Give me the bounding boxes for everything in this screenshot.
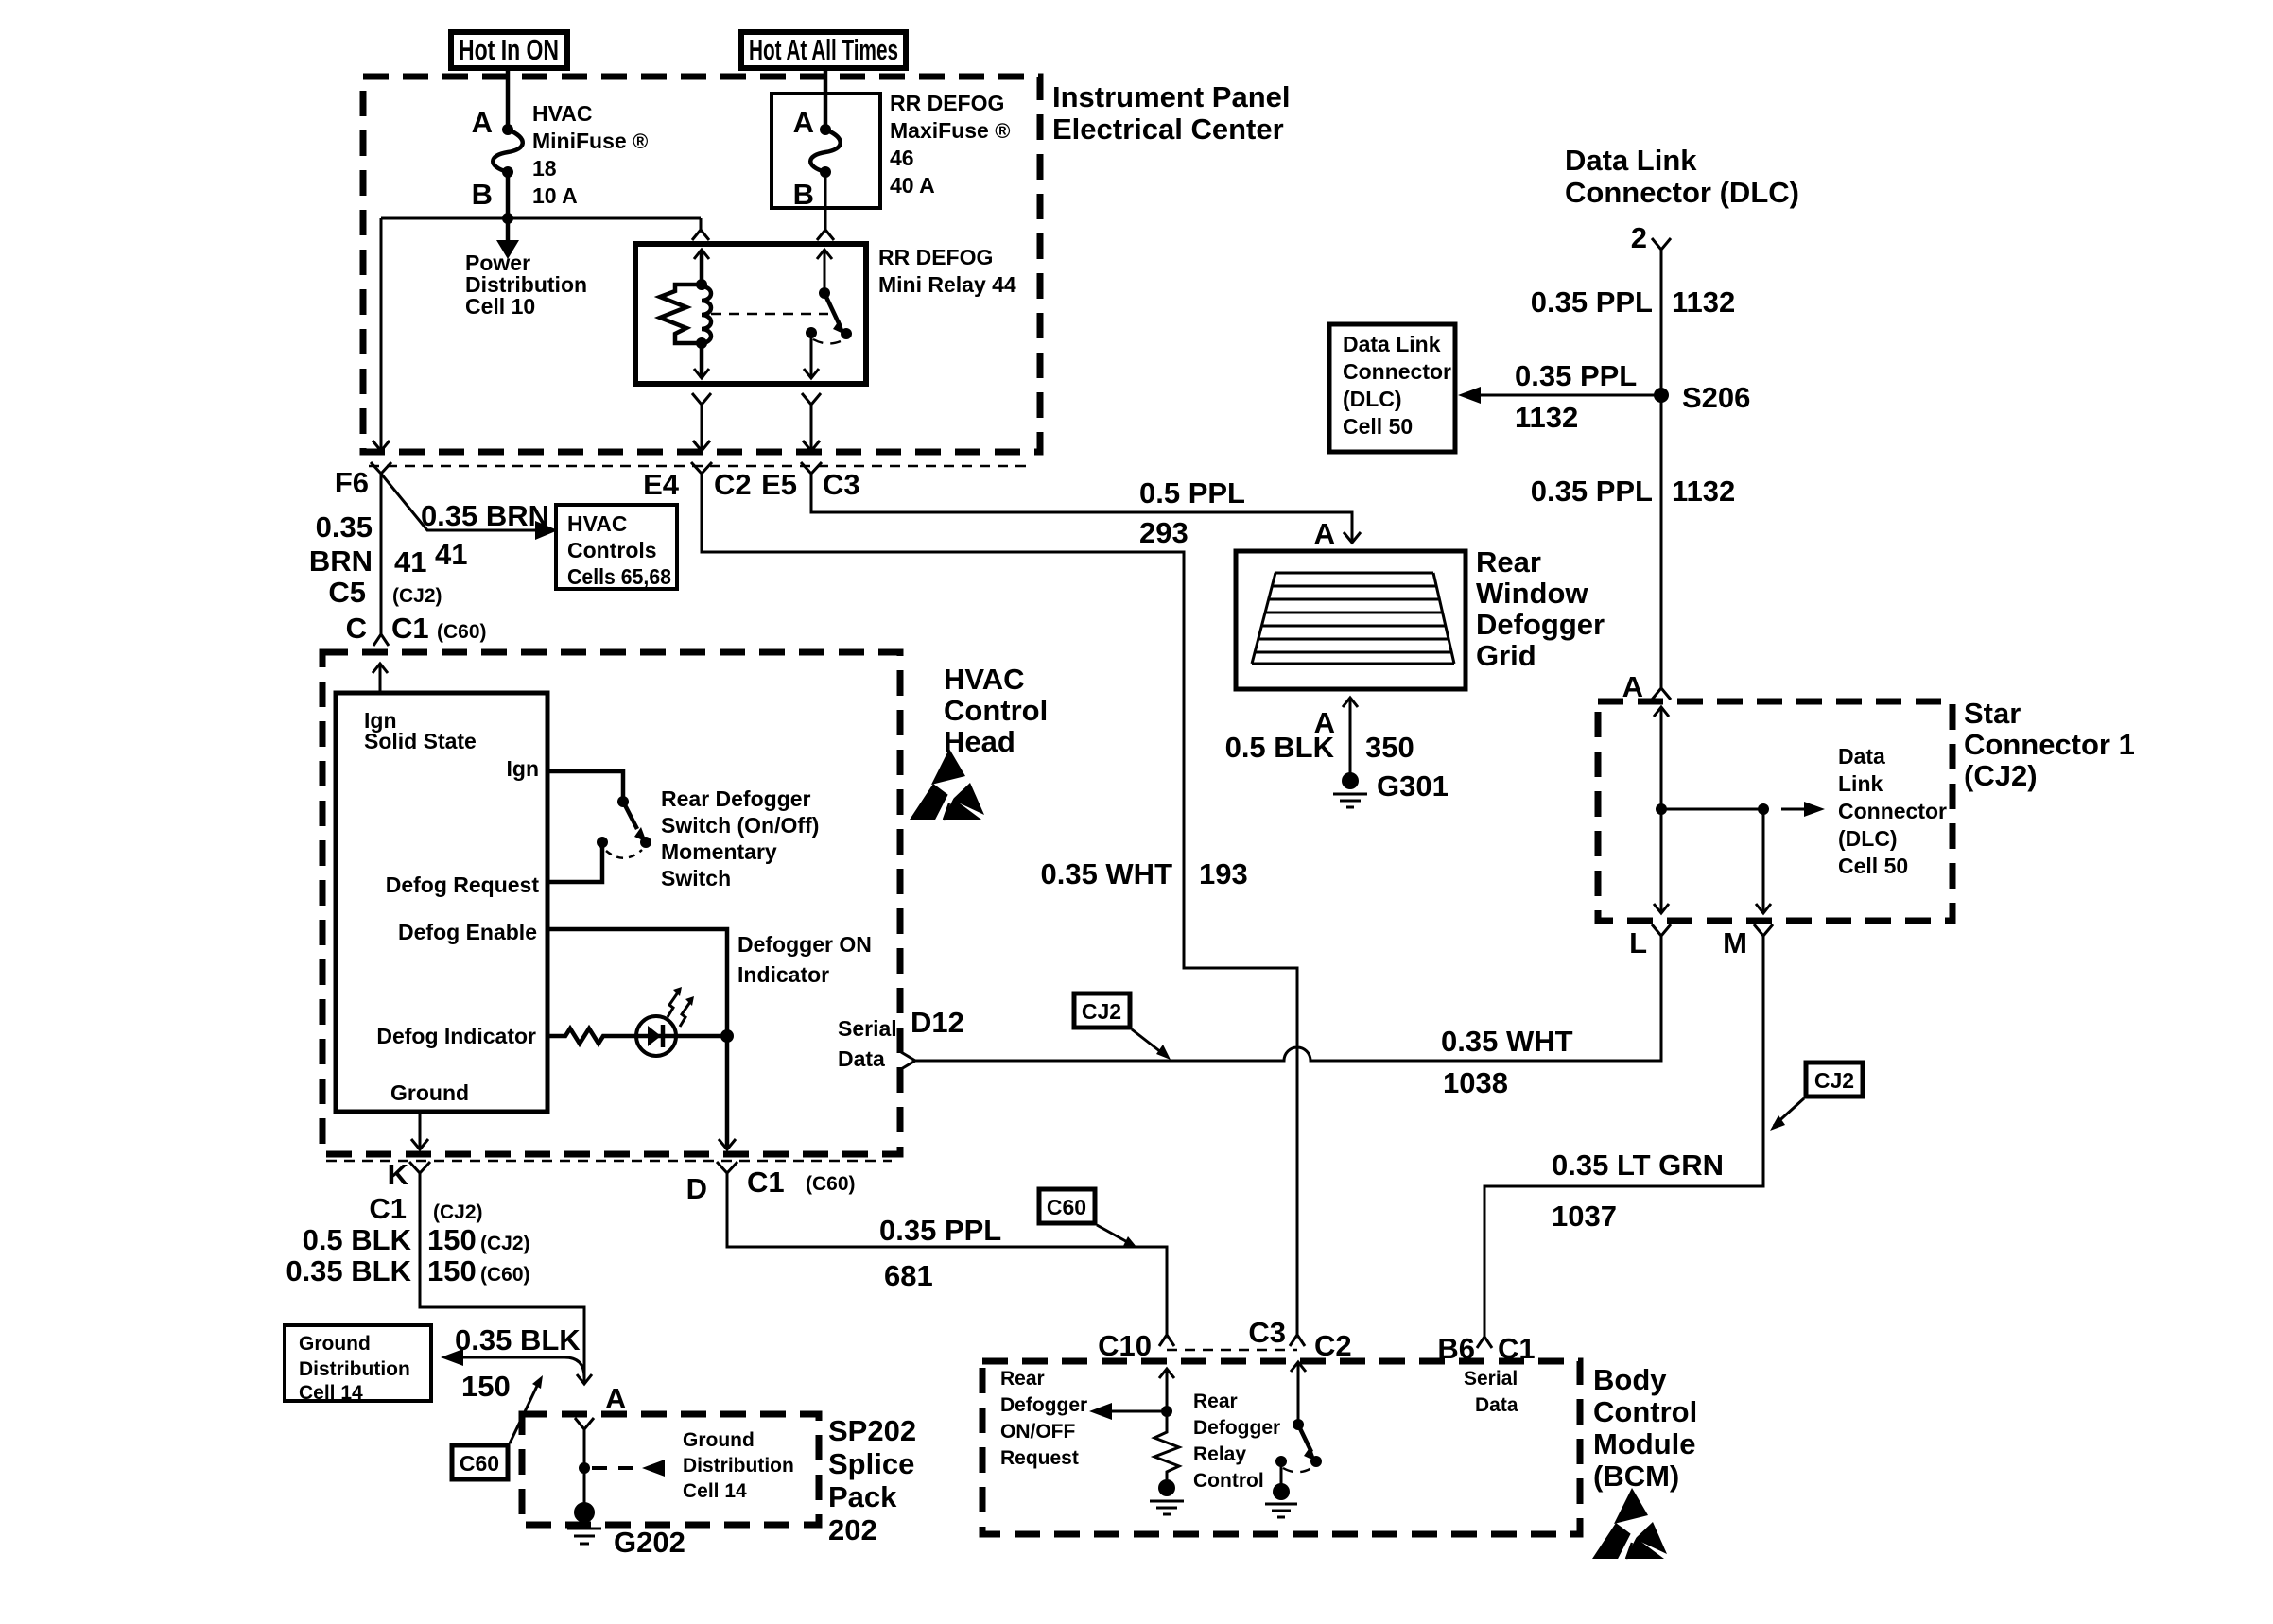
- thin dashed row BCM: [1167, 1349, 1297, 1351]
- svg-text:Cell 50: Cell 50: [1838, 854, 1908, 878]
- svg-text:Defog Enable: Defog Enable: [398, 920, 537, 944]
- svg-text:Cell 14: Cell 14: [683, 1480, 747, 1502]
- connector at relay top right: [817, 230, 834, 240]
- ESD symbol BCM: [1592, 1488, 1667, 1563]
- relay RR DEFOG Mini Relay 44: [635, 244, 866, 384]
- wire horizontal distribution y231: [381, 217, 701, 220]
- BCM resistor: [1154, 1411, 1179, 1479]
- svg-text:Ground: Ground: [299, 1333, 371, 1355]
- svg-text:C: C: [346, 612, 367, 645]
- wire 41 BRN diagonal to HVAC Controls: [381, 474, 535, 530]
- wire S206 to DLC cell 50: [1479, 394, 1661, 397]
- svg-text:0.35 LT GRN: 0.35 LT GRN: [1552, 1149, 1724, 1182]
- ESD symbol HVAC: [910, 749, 984, 823]
- svg-text:(CJ2): (CJ2): [392, 585, 442, 607]
- arrow to Power Distribution Cell 10: [506, 218, 511, 240]
- connector below relay right: [802, 393, 821, 405]
- svg-text:350: 350: [1365, 731, 1414, 764]
- ground G202: [574, 1502, 595, 1523]
- svg-text:(C60): (C60): [480, 1264, 530, 1286]
- svg-text:A: A: [605, 1382, 626, 1415]
- relay resistor (parallel with coil): [660, 285, 702, 343]
- connector C10: [1159, 1335, 1174, 1346]
- wire F6 to C1 vertical: [380, 474, 383, 634]
- svg-text:0.35 BLK: 0.35 BLK: [455, 1323, 581, 1356]
- wire M to BCM B6 (0.35 LT GRN 1037): [1484, 936, 1763, 1337]
- svg-text:Pack: Pack: [828, 1480, 897, 1513]
- wire star L leg: [1660, 809, 1663, 913]
- svg-text:Distribution: Distribution: [299, 1358, 410, 1380]
- node Rear Window Defogger Grid: [1236, 551, 1466, 689]
- connector below relay left: [692, 393, 711, 405]
- svg-text:Electrical Center: Electrical Center: [1052, 112, 1284, 146]
- svg-text:681: 681: [884, 1259, 933, 1292]
- BCM C3 input arrow / relay driver switch: [1291, 1362, 1306, 1372]
- label C60 pointer (681 wire): [1039, 1189, 1095, 1223]
- svg-text:Relay: Relay: [1193, 1443, 1246, 1465]
- svg-text:CJ2: CJ2: [1814, 1068, 1854, 1093]
- label CJ2 pointer (serial data): [1074, 993, 1130, 1028]
- connector A at star: [1652, 688, 1671, 700]
- wire indicator down to D: [725, 1036, 730, 1149]
- connector B6/C1: [1477, 1337, 1492, 1348]
- arrow to DLC cell 50 text: [1781, 808, 1804, 811]
- svg-text:A: A: [793, 106, 814, 139]
- svg-text:293: 293: [1139, 516, 1189, 549]
- svg-text:C5: C5: [328, 576, 366, 609]
- svg-text:ON/OFF: ON/OFF: [1000, 1421, 1075, 1443]
- svg-text:B: B: [472, 178, 493, 211]
- svg-text:0.35 WHT: 0.35 WHT: [1040, 857, 1172, 890]
- relay switch arm: [824, 293, 840, 325]
- svg-text:1132: 1132: [1672, 285, 1735, 319]
- svg-text:0.35 BRN: 0.35 BRN: [421, 499, 549, 532]
- svg-text:C2: C2: [1314, 1329, 1352, 1362]
- relay switch output arrow down: [810, 333, 813, 378]
- wire star internal A: [1654, 707, 1669, 717]
- svg-text:193: 193: [1199, 857, 1248, 890]
- svg-text:Defog Indicator: Defog Indicator: [376, 1024, 536, 1048]
- box Star Connector 1 (CJ2) (dashed): [1598, 701, 1952, 921]
- block Ign Solid State: [336, 693, 547, 1112]
- svg-text:SP202: SP202: [828, 1414, 916, 1447]
- relay switch input: [817, 250, 832, 259]
- relay coil input arrow up: [694, 250, 709, 259]
- relay coil: [696, 279, 707, 290]
- svg-text:L: L: [1629, 926, 1647, 959]
- svg-text:Splice: Splice: [828, 1447, 914, 1480]
- svg-text:Data: Data: [838, 1046, 885, 1071]
- svg-text:Connector: Connector: [1838, 799, 1947, 823]
- svg-text:0.35 PPL: 0.35 PPL: [1531, 475, 1653, 508]
- svg-text:Serial: Serial: [1464, 1368, 1518, 1390]
- svg-text:Hot At All Times: Hot At All Times: [749, 33, 898, 66]
- svg-text:40 A: 40 A: [890, 173, 935, 198]
- box Instrument Panel Electrical Center (dashed): [363, 77, 1040, 452]
- wire switch to Defog Request: [547, 842, 602, 882]
- connector E5/C3 below IP box: [801, 462, 822, 474]
- thin dashed connector row under HVAC box: [326, 1160, 892, 1162]
- label CJ2 pointer (LT GRN): [1806, 1063, 1863, 1097]
- svg-text:Ground: Ground: [683, 1429, 755, 1451]
- svg-text:C1: C1: [369, 1192, 407, 1225]
- svg-text:(C60): (C60): [806, 1173, 856, 1195]
- svg-text:0.35 PPL: 0.35 PPL: [879, 1214, 1001, 1247]
- connector D12 serial out: [901, 1052, 915, 1069]
- svg-text:Connector (DLC): Connector (DLC): [1565, 176, 1799, 209]
- svg-text:Control: Control: [1593, 1395, 1697, 1428]
- svg-text:Link: Link: [1838, 771, 1883, 796]
- wire inside splice pack: [575, 1418, 594, 1429]
- wire K to splice pack: [420, 1173, 584, 1384]
- BCM request arrow left: [1110, 1410, 1167, 1413]
- label C60 pointer: [452, 1445, 508, 1479]
- wire Hot At All Times to MaxiFuse: [824, 68, 828, 130]
- svg-text:Data: Data: [1475, 1394, 1518, 1416]
- LED indicator: [636, 1016, 676, 1056]
- node Hot At All Times: [741, 32, 906, 68]
- connector K / C1 (CJ2): [409, 1162, 430, 1173]
- wire serial data 0.35 WHT 1038 (with hop): [915, 936, 1661, 1061]
- svg-text:MaxiFuse ®: MaxiFuse ®: [890, 118, 1010, 143]
- wire F6 vertical inside IP box: [380, 218, 383, 451]
- svg-text:Mini Relay 44: Mini Relay 44: [878, 272, 1016, 297]
- svg-text:0.5 BLK: 0.5 BLK: [1225, 731, 1335, 764]
- relay mech link (dashed): [711, 313, 828, 315]
- svg-text:202: 202: [828, 1513, 877, 1546]
- svg-text:2: 2: [1631, 221, 1647, 254]
- node Data Link Connector (DLC) Cell 50: [1329, 324, 1455, 452]
- svg-text:Cell 50: Cell 50: [1343, 414, 1413, 439]
- junction dot: [502, 213, 513, 224]
- fuse HVAC MiniFuse 18 10A: [502, 124, 513, 135]
- svg-text:Controls: Controls: [567, 538, 657, 562]
- ground G301: [1342, 772, 1359, 789]
- switch contact: [597, 837, 608, 848]
- wire grid ground A: [1343, 698, 1358, 707]
- wire 0.5 PPL 293 from E5/C3: [811, 474, 1352, 543]
- svg-text:M: M: [1723, 926, 1747, 959]
- svg-text:18: 18: [532, 156, 557, 181]
- wire star internal bus: [1661, 808, 1763, 811]
- wire 0.35 WHT 193 from E4/C2 to BCM C3: [702, 474, 1297, 1335]
- connector E4/C2 below IP box: [691, 462, 712, 474]
- node Ground Distribution Cell 14: [285, 1325, 431, 1401]
- svg-text:Request: Request: [1000, 1447, 1079, 1469]
- node HVAC Controls Cells 65,68: [556, 505, 677, 589]
- svg-text:Hot In ON: Hot In ON: [459, 33, 559, 66]
- svg-text:Window: Window: [1476, 577, 1588, 610]
- svg-text:Control: Control: [944, 694, 1048, 727]
- svg-text:150: 150: [427, 1254, 477, 1287]
- svg-text:(BCM): (BCM): [1593, 1460, 1679, 1493]
- BCM resistor ground: [1158, 1479, 1175, 1496]
- svg-text:G202: G202: [614, 1526, 685, 1559]
- svg-text:HVAC: HVAC: [532, 101, 592, 126]
- svg-text:(DLC): (DLC): [1838, 826, 1898, 851]
- box SP202 Splice Pack 202 (dashed): [522, 1414, 819, 1525]
- node Hot In ON: [451, 32, 567, 68]
- thin dashed connector row under IP box: [369, 465, 1029, 467]
- svg-text:Connector 1: Connector 1: [1964, 728, 2135, 761]
- svg-text:Ign: Ign: [507, 756, 540, 781]
- svg-text:(CJ2): (CJ2): [480, 1233, 530, 1254]
- svg-text:MiniFuse ®: MiniFuse ®: [532, 129, 648, 153]
- svg-text:Ground: Ground: [390, 1080, 469, 1105]
- wire relay top left drop: [700, 218, 703, 230]
- svg-text:Head: Head: [944, 725, 1015, 758]
- svg-text:Body: Body: [1593, 1363, 1667, 1396]
- svg-text:A: A: [1314, 517, 1335, 550]
- svg-text:C60: C60: [1047, 1195, 1086, 1219]
- svg-text:A: A: [472, 106, 493, 139]
- svg-text:10 A: 10 A: [532, 183, 578, 208]
- svg-text:Data Link: Data Link: [1343, 332, 1441, 356]
- svg-text:Cell 10: Cell 10: [465, 294, 535, 319]
- wire Hot In ON to fuse A: [506, 68, 511, 130]
- connector F6 (below IP box): [371, 462, 391, 474]
- box Body Control Module (BCM) (dashed): [982, 1361, 1580, 1534]
- wire star M leg: [1762, 809, 1765, 913]
- resistor (indicator): [547, 1028, 636, 1044]
- svg-text:0.35 PPL: 0.35 PPL: [1515, 359, 1637, 392]
- svg-text:D: D: [686, 1172, 707, 1205]
- svg-text:0.5 BLK: 0.5 BLK: [303, 1223, 412, 1256]
- svg-text:41: 41: [435, 538, 467, 571]
- svg-text:Switch (On/Off): Switch (On/Off): [661, 813, 819, 838]
- svg-text:Cell 14: Cell 14: [299, 1382, 363, 1404]
- fuse RR DEFOG MaxiFuse 46 40A: [772, 94, 880, 208]
- svg-text:Defog Request: Defog Request: [386, 872, 540, 897]
- svg-text:G301: G301: [1377, 769, 1449, 803]
- connector C3/C2: [1290, 1335, 1305, 1346]
- wire fuse B down to junction: [506, 172, 511, 218]
- box HVAC Control Head (dashed): [322, 652, 900, 1154]
- svg-text:Solid State: Solid State: [364, 729, 477, 753]
- svg-text:HVAC: HVAC: [567, 511, 627, 536]
- svg-text:Rear: Rear: [1193, 1391, 1238, 1412]
- connector DLC pin 2: [1652, 238, 1671, 250]
- splice S206: [1654, 388, 1669, 403]
- svg-text:1132: 1132: [1515, 401, 1578, 434]
- svg-text:S206: S206: [1682, 381, 1750, 414]
- svg-text:C1: C1: [391, 612, 429, 645]
- BCM switch ground: [1280, 1461, 1283, 1484]
- svg-text:C3: C3: [1248, 1316, 1286, 1349]
- svg-text:0.35 WHT: 0.35 WHT: [1441, 1025, 1573, 1058]
- svg-text:46: 46: [890, 146, 914, 170]
- svg-text:E5: E5: [761, 468, 797, 501]
- svg-text:CJ2: CJ2: [1082, 999, 1121, 1024]
- svg-text:(C60): (C60): [437, 621, 487, 643]
- svg-text:C2: C2: [714, 468, 752, 501]
- svg-text:Switch: Switch: [661, 866, 731, 890]
- wire DLC down to S206: [1660, 250, 1663, 395]
- LED light arrows: [668, 993, 678, 1017]
- svg-text:C60: C60: [460, 1451, 499, 1476]
- svg-text:B: B: [793, 178, 814, 211]
- wire S206 down to star connector: [1660, 395, 1663, 688]
- connector C/C1 (C60): [373, 634, 389, 646]
- svg-text:BRN: BRN: [309, 544, 373, 578]
- svg-text:Defogger: Defogger: [1476, 608, 1605, 641]
- svg-text:D12: D12: [911, 1006, 964, 1039]
- wire Defog Enable to indicator: [547, 929, 727, 1036]
- svg-text:1037: 1037: [1552, 1200, 1617, 1233]
- svg-text:0.35 BLK: 0.35 BLK: [286, 1254, 411, 1287]
- svg-text:Defogger: Defogger: [1000, 1394, 1087, 1416]
- svg-text:Momentary: Momentary: [661, 839, 777, 864]
- svg-text:0.35 PPL: 0.35 PPL: [1531, 285, 1653, 319]
- svg-text:1132: 1132: [1672, 475, 1735, 508]
- wire 0.35 BLK 150 to splice: [441, 1349, 463, 1366]
- svg-text:Grid: Grid: [1476, 639, 1536, 672]
- svg-text:Data: Data: [1838, 744, 1885, 769]
- svg-text:Defogger ON: Defogger ON: [737, 932, 872, 957]
- svg-text:41: 41: [394, 545, 426, 579]
- svg-text:150: 150: [427, 1223, 477, 1256]
- relay switch common contact: [806, 327, 817, 338]
- svg-text:Indicator: Indicator: [737, 962, 829, 987]
- svg-text:1038: 1038: [1443, 1066, 1508, 1099]
- svg-text:Rear Defogger: Rear Defogger: [661, 786, 811, 811]
- svg-text:Data Link: Data Link: [1565, 144, 1697, 177]
- svg-text:C3: C3: [823, 468, 860, 501]
- wire relay right output to IP edge: [810, 405, 813, 451]
- svg-text:(CJ2): (CJ2): [433, 1201, 483, 1223]
- BCM C10 input arrow: [1159, 1369, 1174, 1378]
- dashed ground distribution link: [592, 1466, 639, 1470]
- wire Ign to switch: [547, 771, 623, 802]
- svg-text:C10: C10: [1098, 1329, 1152, 1362]
- svg-text:Defogger: Defogger: [1193, 1417, 1280, 1439]
- wire Ground down to K: [419, 1112, 422, 1149]
- svg-text:Control: Control: [1193, 1470, 1264, 1492]
- wire LED to junction: [676, 1034, 727, 1039]
- relay coil output arrow down: [700, 343, 704, 378]
- connector L: [1652, 924, 1671, 936]
- wire MaxiFuse B down to relay: [824, 172, 827, 230]
- wire relay left output to IP edge: [701, 405, 703, 451]
- connector at relay top left: [692, 230, 709, 240]
- svg-text:Module: Module: [1593, 1427, 1696, 1460]
- svg-text:(CJ2): (CJ2): [1964, 759, 2038, 792]
- switch Rear Defogger momentary arm: [623, 802, 637, 829]
- svg-text:150: 150: [461, 1370, 511, 1403]
- wire D to BCM C10 (0.35 PPL 681): [727, 1173, 1167, 1335]
- svg-text:RR DEFOG: RR DEFOG: [878, 245, 993, 269]
- svg-text:(DLC): (DLC): [1343, 387, 1402, 411]
- svg-text:C1: C1: [747, 1166, 785, 1199]
- svg-text:Serial: Serial: [838, 1016, 897, 1041]
- svg-text:Rear: Rear: [1000, 1368, 1045, 1390]
- arrow down at F6 crossing: [373, 441, 390, 451]
- svg-text:Rear: Rear: [1476, 545, 1541, 579]
- svg-text:HVAC: HVAC: [944, 663, 1025, 696]
- svg-text:Cells 65,68: Cells 65,68: [567, 564, 671, 589]
- svg-text:F6: F6: [335, 466, 369, 499]
- svg-text:Distribution: Distribution: [683, 1455, 794, 1477]
- svg-text:Instrument Panel: Instrument Panel: [1052, 80, 1291, 113]
- svg-text:RR DEFOG: RR DEFOG: [890, 91, 1004, 115]
- svg-text:Connector: Connector: [1343, 359, 1451, 384]
- svg-text:Star: Star: [1964, 697, 2021, 730]
- svg-text:0.35: 0.35: [316, 510, 373, 544]
- svg-text:E4: E4: [643, 468, 680, 501]
- svg-text:0.5 PPL: 0.5 PPL: [1139, 476, 1245, 510]
- wire into HVAC control head: [373, 664, 388, 673]
- svg-text:K: K: [388, 1158, 409, 1191]
- connector M: [1754, 924, 1773, 936]
- connector D / C1 (C60): [717, 1162, 737, 1173]
